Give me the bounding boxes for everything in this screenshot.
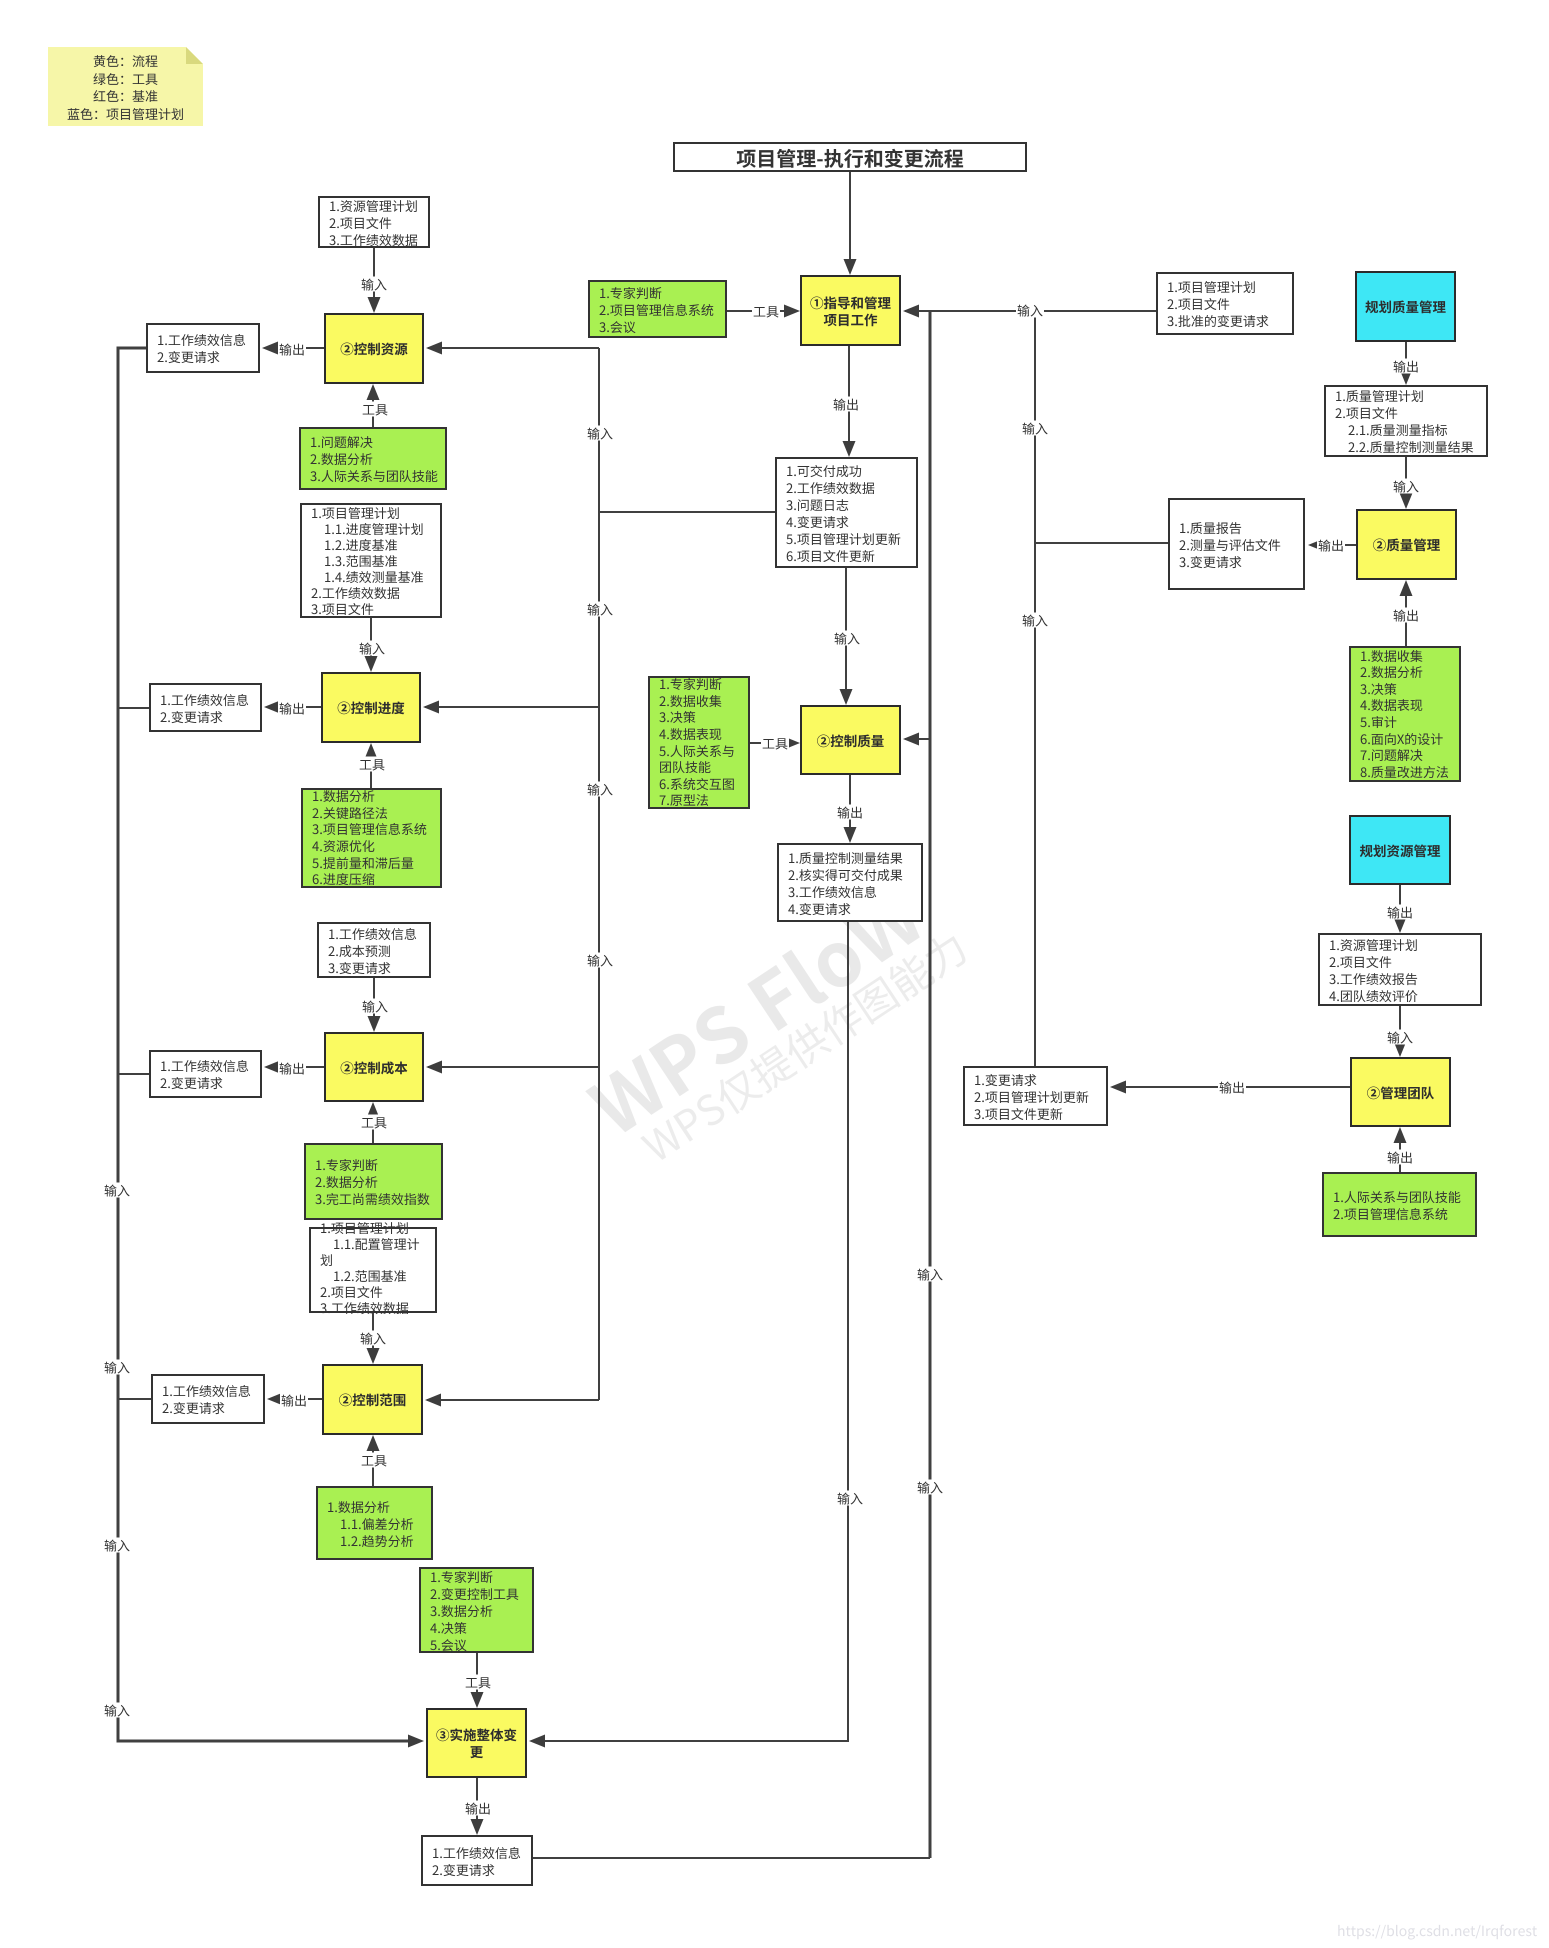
arrowhead into 控制成本 right <box>426 1061 442 1074</box>
wire 质量管理 output left to W14 <box>1321 544 1356 546</box>
arrowhead 控制范围 output into W8 <box>267 1393 283 1406</box>
csdn url text <box>1337 1921 1537 1941</box>
G6 tools-list for 实施整体变更 <box>419 1567 534 1653</box>
W3 input-list for 控制进度 <box>300 503 442 618</box>
arrowhead into 控制质量 top <box>840 689 853 705</box>
wire branch left rail to W6 <box>118 1073 149 1075</box>
label 输入 riser599 a <box>586 426 614 441</box>
label 输出 规划质量管理→W13 <box>1392 359 1420 374</box>
legend sticky note <box>48 47 203 126</box>
arrowhead into 指导和管理项目工作 top <box>844 259 857 275</box>
arrowhead tools up into 控制资源 bottom <box>367 384 380 400</box>
label 输入 left rail a <box>103 1183 131 1198</box>
label 输入 left rail d <box>103 1703 131 1718</box>
wire W11 left to riser x599 <box>599 511 775 513</box>
label 输入 riser930 b <box>916 1480 944 1495</box>
wire G2 tools up to 控制资源 <box>372 394 374 427</box>
G4 tools-list for 控制成本 <box>304 1143 443 1220</box>
label 工具 G3→控制进度 <box>358 757 386 772</box>
arrowhead into 控制质量 right <box>903 733 919 746</box>
W14 output-list of 质量管理 <box>1168 498 1305 590</box>
W16 output-list of 管理团队 <box>963 1066 1108 1126</box>
arrowhead into 质量管理 top <box>1400 493 1413 509</box>
wire W13 down to 质量管理 input <box>1405 457 1407 499</box>
title box 项目管理-执行和变更流程 <box>673 142 1027 172</box>
label 输入 W13→质量管理 <box>1392 479 1420 494</box>
wire vertical riser x1035 (质量管理/管理团队 outputs to ① input) <box>1034 311 1036 1066</box>
Y9 process 管理团队 <box>1350 1057 1451 1127</box>
arrowhead tools into 实施整体变更 top <box>471 1692 484 1708</box>
label 输出 控制质量→W12 <box>836 805 864 820</box>
W1 input-list for 控制资源 <box>318 196 430 248</box>
label 输出 G9→管理团队 <box>1386 1150 1414 1165</box>
label 输入 W15→管理团队 <box>1386 1030 1414 1045</box>
arrowhead 控制质量 output into W12 <box>844 827 857 843</box>
wire title to 指导和管理项目工作 <box>849 172 851 262</box>
arrowhead tools into 控制质量 left <box>784 737 800 750</box>
arrowhead into 控制资源 top <box>368 297 381 313</box>
wire W3 to 控制进度 input <box>370 618 372 662</box>
arrowhead into 控制进度 top <box>365 656 378 672</box>
wire G4 tools up to 控制成本 <box>372 1112 374 1143</box>
wire 规划资源管理 down to W15 <box>1399 885 1401 923</box>
arrowhead into 控制资源 right <box>426 342 442 355</box>
label 输入 W7→控制范围 <box>359 1331 387 1346</box>
label 输入 riser930 a <box>916 1267 944 1282</box>
arrowhead into 控制范围 top <box>367 1348 380 1364</box>
wire 控制范围 output left <box>281 1398 322 1400</box>
wire 指导和管理项目工作 output down <box>848 346 850 447</box>
W5 input-list for 控制成本 <box>317 922 431 978</box>
wire G7 tools to 控制质量 left <box>750 742 785 744</box>
wire 规划质量管理 down to W13 <box>1405 342 1407 375</box>
arrowhead into 控制成本 top <box>368 1016 381 1032</box>
W8 output-list of 控制范围 <box>151 1374 265 1424</box>
label 输出 控制资源→W2 <box>278 342 306 357</box>
wire W15 down to 管理团队 input <box>1399 1006 1401 1047</box>
wire branch left rail to W4 <box>118 707 149 709</box>
arrowhead 控制资源 output into W2 <box>262 342 278 355</box>
arrowhead input into 指导和管理项目工作 right <box>903 305 919 318</box>
wire G3 tools up to 控制进度 <box>370 753 372 788</box>
wire G5 tools up to 控制范围 <box>372 1445 374 1486</box>
label 输入 riser848 <box>836 1491 864 1506</box>
wire W5 to 控制成本 input <box>373 978 375 1022</box>
wire 实施整体变更 output down to W9 <box>476 1778 478 1825</box>
wire vertical riser x599 (① outputs feed control processes) <box>598 348 600 1400</box>
wire W1 to 控制资源 input <box>373 248 375 303</box>
wire G6 tools down to 实施整体变更 <box>476 1653 478 1698</box>
W9 output-list of 实施整体变更 <box>421 1835 533 1886</box>
arrowhead tools up into 控制范围 bottom <box>367 1435 380 1451</box>
G8 tools-list for 质量管理 <box>1349 646 1461 782</box>
wire branch x599 to 控制资源 <box>428 347 599 349</box>
G5 tools-list for 控制范围 <box>316 1486 433 1560</box>
label 输出 控制成本→W6 <box>278 1061 306 1076</box>
label 输入 right into ① <box>1016 303 1044 318</box>
W6 output-list of 控制成本 <box>149 1050 262 1098</box>
wire W11 down to 控制质量 input <box>845 568 847 695</box>
W15 output-list of 规划资源管理 <box>1318 933 1482 1006</box>
label 输入 riser1035 b <box>1021 613 1049 628</box>
G3 tools-list for 控制进度 <box>301 788 442 888</box>
wire G8 tools up to 质量管理 <box>1405 590 1407 646</box>
arrowhead 规划质量管理 output into W13 <box>1400 369 1413 385</box>
label 输出 管理团队→W16 <box>1218 1080 1246 1095</box>
wire branch x599 to 控制成本 <box>428 1066 599 1068</box>
arrowhead into 控制进度 right <box>423 701 439 714</box>
arrowhead into 管理团队 top <box>1394 1041 1407 1057</box>
Y4 process 控制成本 <box>324 1032 424 1102</box>
W7 input-list for 控制范围 <box>309 1227 437 1313</box>
Y3 process 控制进度 <box>321 672 421 743</box>
W4 output-list of 控制进度 <box>149 683 262 732</box>
Y5 process 控制范围 <box>322 1364 423 1435</box>
arrowhead ① output into W11 <box>843 441 856 457</box>
wire branch x1035 to 质量报告 box <box>1035 542 1168 544</box>
label 输出 控制进度→W4 <box>278 701 306 716</box>
label 工具 G1→① <box>752 304 780 319</box>
label 输入 W1→控制资源 <box>360 277 388 292</box>
wire 管理团队 output left to W16 <box>1124 1086 1350 1088</box>
arrowhead left rail into 实施整体变更 left <box>408 1735 424 1748</box>
arrowhead into 控制范围 right <box>425 1394 441 1407</box>
wire 控制进度 output left <box>278 706 321 708</box>
W11 output-list of 指导和管理项目工作 <box>775 457 918 568</box>
arrowhead 控制成本 output into W6 <box>264 1061 280 1074</box>
W12 output-list of 控制质量 <box>777 843 923 922</box>
wire input line into 指导和管理项目工作 right side <box>905 310 1156 312</box>
arrowhead tools into 指导和管理项目工作 left <box>784 305 800 318</box>
label 输出 G8→质量管理 <box>1392 608 1420 623</box>
arrowhead 规划资源管理 output into W15 <box>1394 917 1407 933</box>
arrowhead 管理团队 output into W16 <box>1110 1081 1126 1094</box>
label 输入 riser1035 a <box>1021 421 1049 436</box>
wire left rail from W2 down to 实施整体变更 <box>118 348 410 1741</box>
W10 input-list for 指导和管理项目工作 <box>1156 272 1294 335</box>
Y8 process 质量管理 <box>1356 509 1457 580</box>
label 工具 G4→控制成本 <box>360 1115 388 1130</box>
wire branch x599 to 控制进度 <box>425 706 599 708</box>
label 输入 riser599 c <box>586 782 614 797</box>
W2 output-list of 控制资源 <box>146 323 260 373</box>
wire 控制质量 output down to W12 <box>849 775 851 833</box>
wire tools G1 to 指导和管理项目工作 <box>727 310 785 312</box>
label 输入 W5→控制成本 <box>361 999 389 1014</box>
label 输入 left rail c <box>103 1538 131 1553</box>
arrowhead 控制进度 output into W4 <box>264 701 280 714</box>
label 输出 控制范围→W8 <box>280 1393 308 1408</box>
arrowhead tools up into 控制进度 bottom <box>365 743 378 759</box>
C2 process 规划资源管理 <box>1349 815 1451 885</box>
G7 tools-list for 控制质量 <box>648 676 750 809</box>
C1 process 规划质量管理 <box>1355 271 1456 342</box>
Y6 process 控制质量 <box>800 705 901 775</box>
wire W7 to 控制范围 input <box>372 1313 374 1354</box>
G2 tools-list for 控制资源 <box>299 427 447 490</box>
label 工具 G5→控制范围 <box>360 1453 388 1468</box>
G9 tools-list for 管理团队 <box>1322 1172 1477 1237</box>
label 输入 riser599 d <box>586 953 614 968</box>
wire branch left rail to W8 <box>118 1398 151 1400</box>
Y1 process 指导和管理项目工作 <box>800 275 901 346</box>
wire branch x599 to 控制范围 <box>427 1399 599 1401</box>
arrowhead W12 line into 实施整体变更 right <box>529 1735 545 1748</box>
arrowhead tools up into 管理团队 bottom <box>1394 1127 1407 1143</box>
wire branch x930 to 控制质量 right side <box>905 738 930 740</box>
label 输出 质量管理→W14 <box>1317 538 1345 553</box>
label 输入 W11→控制质量 <box>833 631 861 646</box>
wire 控制成本 output left <box>278 1066 324 1068</box>
wire W12 down then left into 实施整体变更 right side <box>543 922 848 1741</box>
Y2 process 控制资源 <box>324 313 424 384</box>
wire 控制资源 output left <box>276 347 324 349</box>
W13 output-list of 规划质量管理 <box>1324 385 1488 457</box>
arrowhead 质量管理 output into W14 <box>1308 539 1324 552</box>
arrowhead tools up into 质量管理 bottom <box>1400 580 1413 596</box>
label 输出 实施整体变更→W9 <box>464 1801 492 1816</box>
label 输出 ①→W11 <box>832 397 860 412</box>
wire vertical riser x930 from bottom output up to 指导和管理项目工作 <box>929 311 932 1858</box>
wire from W9 output box right to riser x930 <box>533 1857 930 1859</box>
wire G9 tools up to 管理团队 <box>1399 1137 1401 1172</box>
G1 tools-list for 指导和管理项目工作 <box>588 280 727 338</box>
label 输入 W3→控制进度 <box>358 641 386 656</box>
Y7 process 实施整体变更 <box>426 1708 527 1778</box>
arrowhead 实施整体变更 output into W9 <box>471 1819 484 1835</box>
label 输入 left rail b <box>103 1360 131 1375</box>
label 工具 G7→控制质量 <box>761 736 789 751</box>
label 工具 G6→实施整体变更 <box>464 1675 492 1690</box>
label 工具 G2→控制资源 <box>361 402 389 417</box>
label 输出 规划资源管理→W15 <box>1386 905 1414 920</box>
label 输入 riser599 b <box>586 602 614 617</box>
arrowhead tools up into 控制成本 bottom <box>367 1102 380 1118</box>
